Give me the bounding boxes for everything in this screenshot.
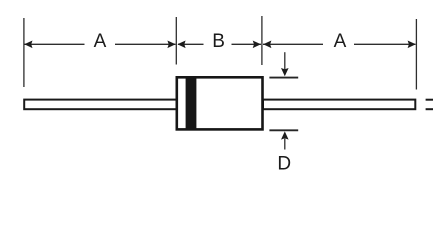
svg-text:B: B [212,31,225,52]
wire: right lead of diode [263,100,415,110]
extension line right (lead end) [415,19,417,90]
arrowhead B at body-left extension line [177,41,185,49]
dimension line A right segment 1 [263,43,323,45]
dimension line A right segment 2 [354,43,416,45]
dimension line B segment 2 [232,43,262,45]
D reference line top (body diameter top) [269,77,298,79]
diode D1 body [177,77,263,129]
svg-text:D: D [277,154,291,175]
arrowhead A-right at body-right extension line [263,41,271,49]
svg-text:A: A [94,31,107,52]
diode D1 cathode band [186,77,197,130]
extension line body left [175,17,177,65]
dimension line A left segment 2 [115,43,176,45]
D arrow up shaft [284,139,286,150]
dimension line B segment 1 [178,43,204,45]
wire: left lead of diode [24,100,177,110]
dimension line A left segment 1 [25,43,85,45]
D arrowhead down [281,68,289,76]
arrowhead B at body-right extension line [253,41,261,49]
D arrowhead up [281,131,289,139]
arrowhead A-right at right extension line [408,41,416,49]
arrowhead A-left at body-left extension line [167,41,175,49]
wire: lead continuation dashes at right edge [426,99,433,101]
D arrow down shaft [284,52,286,69]
extension line left (lead end) [23,18,25,87]
extension line body right [261,16,263,65]
svg-text:A: A [334,31,347,52]
arrowhead A-left at left extension line [24,41,32,49]
D reference line bottom (body diameter bottom) [269,129,298,131]
